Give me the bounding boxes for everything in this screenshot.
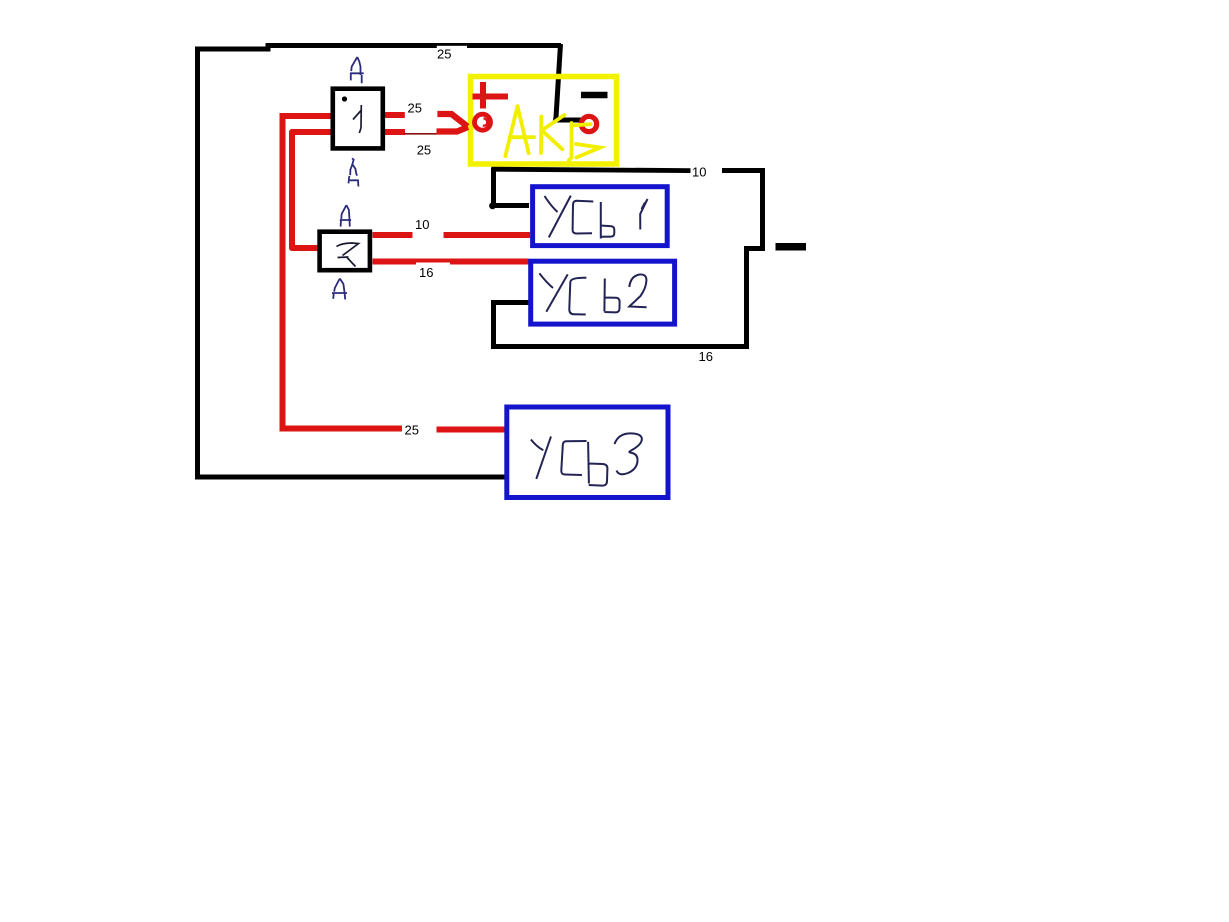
svg-text:25: 25	[405, 423, 419, 438]
relay box 1	[333, 89, 383, 149]
svg-text:10: 10	[415, 217, 429, 232]
battery minus mark	[581, 92, 608, 99]
battery AKB yellow box	[471, 77, 617, 165]
red wire: box3 to USb1 (label 10)	[373, 232, 413, 238]
battery negative terminal ring	[581, 116, 596, 131]
svg-text:16: 16	[419, 265, 433, 280]
amplifier USb3 box	[507, 407, 668, 498]
red wire: box3 to USb2 (label 16)	[373, 259, 529, 265]
red wire: box1 to box3 feed	[292, 132, 332, 248]
svg-text:25: 25	[437, 47, 451, 62]
letter A above box3	[340, 205, 351, 227]
red wire: box1 to battery top (label 25)	[385, 112, 405, 118]
svg-text:25: 25	[417, 143, 431, 158]
wire: negative bus right loop to USb2	[494, 171, 763, 347]
USb2 handwritten label	[539, 273, 646, 314]
wire: negative bus top segment (before 10 label)	[492, 169, 691, 170]
svg-text:10: 10	[692, 165, 706, 180]
positive terminal inner hook	[483, 118, 487, 125]
battery positive terminal ring	[475, 114, 491, 130]
red wire: box1 to battery bottom (label 25)	[385, 129, 405, 135]
battery plus sign	[473, 82, 509, 109]
ground minus bar	[776, 243, 807, 251]
svg-text:25: 25	[408, 101, 422, 116]
relay box 3	[320, 232, 370, 271]
label 25 top frame	[437, 46, 467, 61]
USb3 handwritten label	[531, 433, 642, 485]
letter A above box1	[350, 57, 364, 83]
label 10 black bus	[691, 166, 723, 181]
red wire: frame positive feed box1 to USb3 (label 25)	[283, 116, 403, 429]
amplifier USb2 box	[531, 261, 675, 324]
digit 3 inside box	[337, 243, 359, 267]
battery label AKB handwritten yellow	[505, 106, 600, 160]
letter A below box1	[349, 158, 359, 186]
dot inside box 1	[342, 96, 347, 101]
svg-text:16: 16	[699, 349, 713, 364]
label 25 box1 top wire	[405, 102, 438, 118]
USb1 handwritten label	[545, 196, 648, 239]
letter A below box3	[332, 279, 347, 300]
wire: battery negative drop from top frame	[556, 44, 584, 120]
amplifier USb1 box	[533, 187, 668, 246]
label 16 red wire	[416, 263, 450, 278]
label 10 red wire	[413, 219, 443, 239]
wire: black L from battery bottom to USb1	[494, 168, 530, 206]
wire: outer frame from battery minus, top/left/bottom, black	[198, 46, 562, 478]
digit 1 inside box	[353, 105, 361, 133]
corner blob	[489, 202, 496, 209]
